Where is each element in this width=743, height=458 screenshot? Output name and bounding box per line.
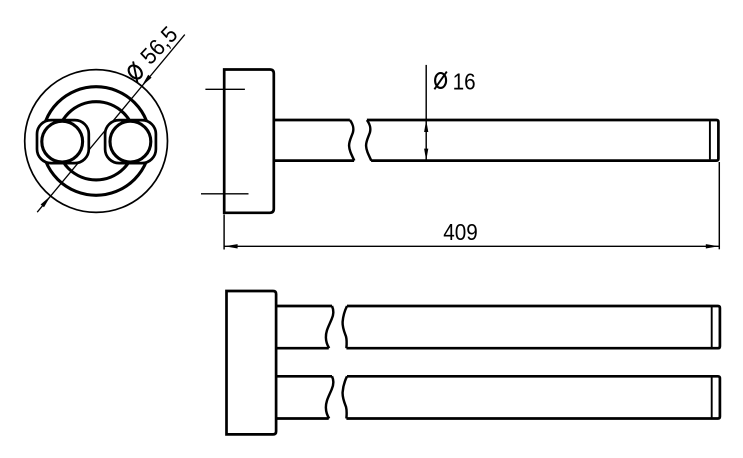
towel bar side view right segment: [367, 120, 719, 161]
upper bar break line left: [326, 306, 334, 348]
label diameter 16: [435, 73, 446, 88]
lower bar end cap line: [711, 377, 713, 417]
diameter 16 leader line: [425, 65, 427, 160]
bar end cap line: [709, 121, 711, 159]
left bar-end housing: [37, 120, 89, 163]
upper bar break line right: [343, 306, 347, 348]
wall plate top view: [227, 291, 277, 434]
diameter 16 arrow up: [424, 120, 428, 132]
extension line right: [718, 162, 720, 249]
left bar-end circle: [42, 121, 83, 162]
break line right: [366, 120, 371, 161]
rosette inner circle: [57, 102, 135, 180]
dimension arrow right: [706, 244, 719, 248]
break line left: [349, 120, 354, 161]
dimension arrow lower-left: [41, 196, 51, 207]
wall plate side view: [224, 70, 274, 213]
lower mounting centerline tick: [201, 193, 249, 195]
right bar-end housing: [105, 120, 156, 163]
svg-text:16: 16: [453, 69, 476, 95]
diameter 16 arrow down: [424, 149, 428, 161]
lower bar top view right segment: [346, 376, 720, 418]
towel bar side view left segment: [274, 120, 354, 161]
rosette middle circle: [42, 87, 151, 196]
upper bar top view left segment: [276, 306, 332, 348]
lower bar break line left: [326, 376, 334, 418]
diameter dimension line: [37, 35, 185, 213]
lower bar break line right: [343, 376, 347, 418]
dimension line 409: [224, 245, 719, 247]
dimension arrow left: [225, 244, 238, 248]
label diameter 56,5: [121, 21, 183, 84]
rosette outer circle: [25, 70, 168, 213]
right bar-end circle: [110, 121, 151, 162]
upper mounting centerline tick: [205, 88, 245, 90]
extension line left: [223, 215, 225, 250]
dimension arrow upper-right: [142, 75, 152, 86]
svg-text:409: 409: [443, 219, 478, 245]
upper bar end cap line: [711, 307, 713, 347]
lower bar top view left segment: [276, 376, 332, 418]
upper bar top view right segment: [346, 306, 720, 348]
